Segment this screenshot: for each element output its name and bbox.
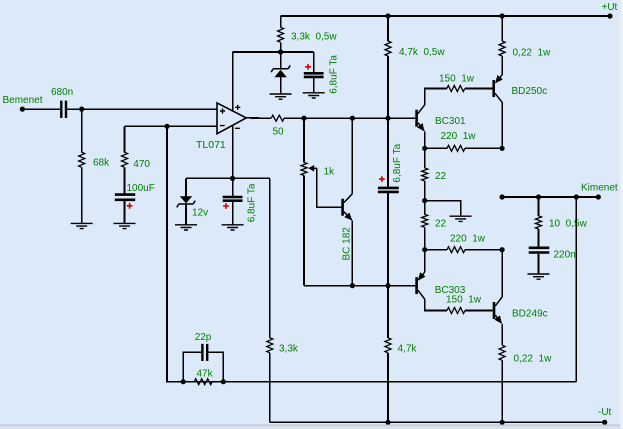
wire 100uF bottom [124, 201, 126, 223]
polarity + 6,8uF#3 [223, 203, 229, 209]
svg-text:6,8uF Ta: 6,8uF Ta [392, 143, 403, 182]
ground 6,8uF#3 [222, 225, 244, 230]
node +12 junction [278, 49, 283, 54]
wire op-amp output [246, 117, 271, 119]
node junction +Ut/0,22 [500, 13, 505, 18]
wire 4,7k 0,5w top [387, 16, 389, 41]
wire zobel top [538, 197, 540, 216]
wire BC182 collector [351, 118, 353, 194]
wire 470 to 100uF [124, 167, 126, 193]
node 220 1w right [500, 146, 505, 151]
resistor 22 lower [422, 214, 428, 227]
wire Kimenet fb column [575, 197, 577, 382]
node junction +Ut/4,7k [385, 13, 390, 18]
wire cap 6,8uF#3 bottom [232, 202, 234, 225]
ground 68k [71, 223, 93, 228]
wire zobel bottom [538, 254, 540, 274]
wire input to C1 [22, 108, 60, 110]
svg-text:4,7k 0,5w: 4,7k 0,5w [399, 47, 445, 58]
wire 68k bottom [81, 167, 83, 223]
resistor 10 0,5w [536, 216, 542, 229]
svg-text:-Ut: -Ut [598, 407, 612, 418]
svg-text:BC301: BC301 [435, 116, 466, 127]
wire zobel mid [538, 229, 540, 247]
wire 0,22 1w top [501, 16, 503, 41]
svg-text:4,7k: 4,7k [398, 344, 418, 355]
svg-text:3,3k 0,5w: 3,3k 0,5w [291, 32, 337, 43]
resistor 470 [122, 152, 128, 167]
wire 0,22lw to -Ut [501, 360, 503, 422]
wire BD250 collector down [501, 102, 503, 148]
svg-text:47k: 47k [197, 369, 214, 380]
node -12 junction [230, 176, 235, 181]
svg-text:1k: 1k [324, 167, 336, 178]
wire C1 to op-amp + [67, 108, 217, 110]
wire 470 top [124, 126, 126, 152]
wire wiper [317, 168, 341, 207]
wire cap#2 to mid row [387, 193, 389, 286]
svg-text:Bemenet: Bemenet [3, 95, 43, 106]
right window strip [620, 0, 623, 429]
wire 3,3k to -Ut [269, 353, 271, 423]
ground zener 12v [175, 225, 197, 230]
ground 6,8uF#1 [303, 93, 325, 98]
transistor Q BD249c [493, 302, 496, 319]
node junction -Ut/0,22 [500, 420, 505, 425]
svg-text:0,22 1w: 0,22 1w [513, 48, 552, 59]
polarity + 6,8uF#2 [379, 176, 385, 182]
polarity + 6,8uF#1 [305, 64, 311, 70]
ground mid tap [450, 216, 472, 221]
wire 4,7k to output row [387, 56, 389, 118]
resistor 150 lw [447, 308, 465, 314]
ground 100uF [114, 223, 136, 228]
svg-text:6,8uF Ta: 6,8uF Ta [247, 183, 258, 222]
resistor 4,7k 0,5w [385, 41, 391, 56]
wire feedback column [167, 126, 576, 381]
svg-text:680n: 680n [51, 87, 73, 98]
svg-text:BD250c: BD250c [512, 86, 548, 97]
svg-text:22p: 22p [195, 332, 212, 343]
node 220 lw left [422, 247, 427, 252]
resistor 22 upper [422, 168, 428, 181]
resistor 220 1w [447, 145, 465, 151]
svg-text:22: 22 [435, 171, 447, 182]
transistor Q BC182 [341, 199, 344, 216]
wire 150 to BD250 base [465, 88, 493, 90]
capacitor 6,8uF Ta #3 [223, 197, 243, 201]
node output/pot junction [301, 116, 306, 121]
node Kimenet/fb junction [574, 194, 579, 199]
svg-text:150 1w: 150 1w [446, 295, 482, 306]
wire op-amp V- pin [232, 126, 234, 179]
wire cap 6,8uF#1 bottom [313, 78, 315, 93]
node junction -Ut/4,7k [385, 420, 390, 425]
node inverting junction [164, 124, 169, 129]
resistor 50 [271, 115, 284, 121]
wire BC303 emitter up [424, 250, 426, 272]
wire 3,3k 0,5w top [280, 16, 282, 27]
node 220 1w left [422, 146, 427, 151]
capacitor 22p [202, 344, 207, 361]
wire BC182 emitter [351, 221, 353, 286]
transistor Q BC303 [415, 277, 418, 294]
wire -12 to 3,3k [269, 178, 271, 337]
node output/BC182 junction [350, 116, 355, 121]
svg-text:10 0,5w: 10 0,5w [549, 219, 588, 230]
resistor 68k [79, 152, 85, 167]
node cap/4,7k junction [385, 283, 390, 288]
potentiometer 1k [301, 162, 307, 175]
svg-text:220n: 220n [554, 250, 576, 261]
resistor 4,7k [385, 338, 391, 353]
node +Ut terminal [607, 13, 612, 18]
svg-text:68k: 68k [93, 158, 110, 169]
svg-text:22: 22 [435, 219, 447, 230]
wire Kimenet row [502, 196, 598, 198]
svg-text:BD249c: BD249c [512, 309, 548, 320]
wire 4,7k to -Ut [387, 353, 389, 423]
node 22 mid junction [422, 198, 427, 203]
wire 22b leads [424, 201, 426, 250]
wire cap 6,8uF#1 top [313, 52, 315, 72]
svg-text:6,8uF Ta: 6,8uF Ta [328, 55, 339, 94]
wire op-amp V+ pin [232, 52, 234, 111]
transistor Q BC301 [415, 110, 418, 127]
node -Ut terminal [602, 420, 607, 425]
svg-text:BC 182: BC 182 [342, 227, 353, 261]
capacitor 100uF [115, 195, 135, 200]
svg-text:Kimenet: Kimenet [581, 183, 618, 194]
node fb right junction [221, 379, 226, 384]
ground zobel [528, 274, 550, 279]
wire to cap 6,8uF#2 [387, 118, 389, 187]
capacitor 680n [61, 101, 66, 118]
wire BD249 collector up [501, 250, 503, 297]
svg-text:+Ut: +Ut [602, 2, 618, 13]
wire mid row to 4,7k [387, 286, 389, 338]
wire 220 lw row [425, 249, 502, 251]
wire inverting row [125, 125, 218, 127]
wire 0,22 to BD250 emitter [501, 56, 503, 75]
wire pot bottom [303, 176, 305, 286]
wire ground tap [425, 201, 461, 217]
node output/4,7k junction [385, 116, 390, 121]
wire 22a leads [424, 148, 426, 200]
svg-text:50: 50 [273, 127, 285, 138]
ground zener +12 [270, 94, 292, 99]
svg-text:12v: 12v [192, 208, 208, 219]
svg-text:3,3k: 3,3k [279, 344, 299, 355]
wire cap 6,8uF#3 top [232, 178, 234, 196]
polarity + 100uF [127, 203, 133, 209]
wire BC301 emitter [424, 132, 426, 149]
node Kimenet terminal [596, 194, 601, 199]
node fb left junction [181, 379, 186, 384]
svg-text:220 1w: 220 1w [441, 131, 477, 142]
wire -12 row [186, 177, 270, 179]
wire output row [284, 117, 415, 119]
node Kimenet/collector junction [500, 194, 505, 199]
wire BC301 collector [425, 89, 447, 105]
diode zener +12 [280, 52, 282, 68]
pot wiper arrow [312, 167, 318, 169]
resistor 3,3k 0,5w [278, 27, 284, 42]
wire 220 1w row [425, 147, 502, 149]
svg-text:470: 470 [133, 159, 150, 170]
op-amp U1 TL071 [217, 103, 246, 134]
node Kimenet/zobel junction [536, 194, 541, 199]
wire BD249 emitter down [501, 324, 503, 345]
svg-text:0,22 1w: 0,22 1w [514, 354, 553, 365]
resistor 3,3k [267, 338, 273, 353]
wire 22p loop [183, 352, 223, 381]
svg-text:150 1w: 150 1w [439, 74, 475, 85]
capacitor 6,8uF Ta #1 [304, 73, 324, 77]
diode zener 12v [185, 178, 187, 196]
resistor 47k [194, 379, 212, 385]
svg-text:220 1w: 220 1w [450, 234, 486, 245]
node Bemenet terminal [20, 107, 25, 112]
resistor 0,22 1w [499, 41, 505, 56]
transistor Q BD250c [492, 80, 495, 97]
wire 68k top [81, 109, 83, 152]
capacitor 220n [529, 248, 550, 253]
wire 150lw to BD249 base [465, 310, 493, 312]
wire 3,3k 0,5w bottom [280, 42, 282, 52]
wire BC303 base row [304, 285, 415, 287]
bottom window strip [0, 425, 623, 429]
svg-text:TL071: TL071 [196, 139, 226, 151]
capacitor 6,8uF Ta #2 [378, 188, 399, 192]
wire +Ut rail [281, 15, 610, 17]
wire -Ut rail [270, 421, 605, 423]
svg-text:100uF: 100uF [127, 183, 155, 194]
resistor 0,22 lw [499, 345, 505, 360]
node BC182-e junction [350, 283, 355, 288]
node input junction [79, 107, 84, 112]
wire +12 row [233, 51, 314, 53]
node 220 lw right [500, 247, 505, 252]
resistor 150 1w [447, 86, 465, 92]
wire BC303 collector [425, 299, 447, 310]
wire pot top [303, 118, 305, 162]
resistor 220 lw [447, 247, 465, 253]
